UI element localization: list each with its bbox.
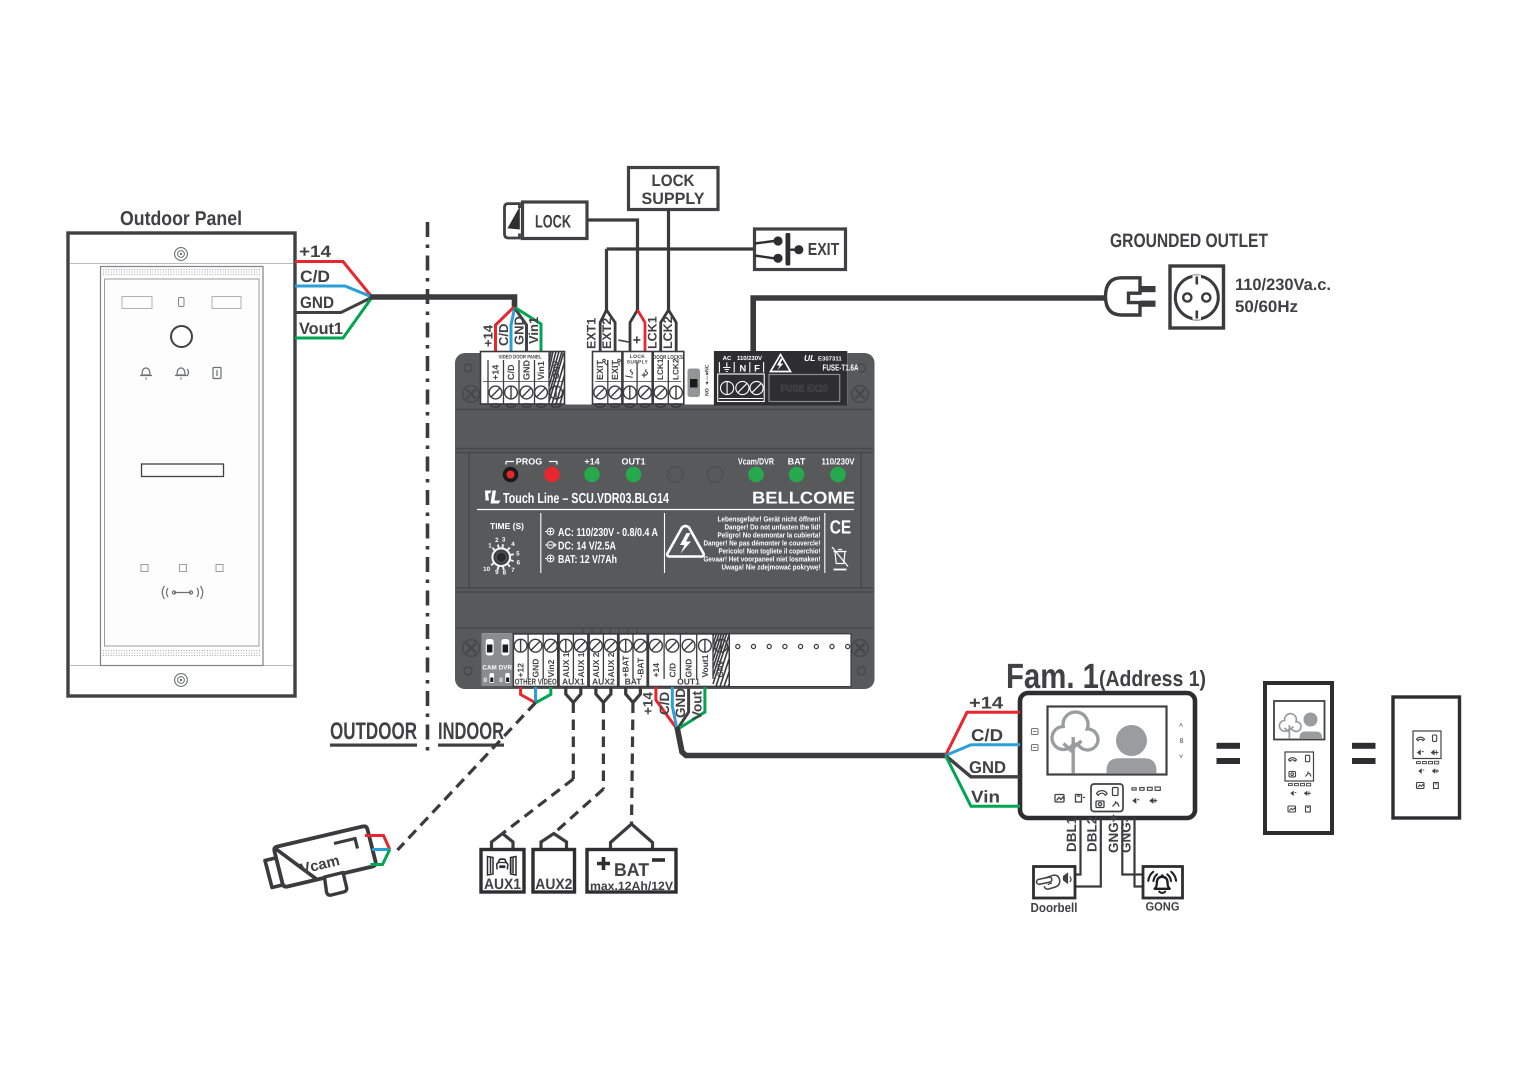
svg-text:+BAT: +BAT: [621, 655, 631, 678]
svg-text:EXIT: EXIT: [610, 359, 620, 380]
svg-text:8: 8: [1180, 738, 1184, 745]
svg-text:PROG: PROG: [516, 457, 543, 467]
svg-text:OUT1: OUT1: [621, 457, 645, 467]
svg-text:Fam. 1: Fam. 1: [1006, 657, 1099, 696]
svg-text:1: 1: [488, 542, 492, 549]
svg-text:BAT: BAT: [788, 457, 806, 467]
svg-text:DVR: DVR: [499, 665, 513, 672]
svg-text:OUT1: OUT1: [677, 677, 700, 687]
svg-text:C/D: C/D: [971, 726, 1003, 745]
svg-text:AC: 110/230V - 0.8/0.4 A: AC: 110/230V - 0.8/0.4 A: [558, 527, 658, 539]
svg-text:/: /: [625, 375, 636, 378]
svg-text:AUX2: AUX2: [535, 876, 572, 893]
svg-text:C/D: C/D: [667, 663, 677, 678]
svg-text:F: F: [754, 364, 760, 375]
svg-text:FUSE 5X20: FUSE 5X20: [781, 384, 828, 395]
svg-text:BELLCOME: BELLCOME: [752, 489, 855, 508]
svg-text:N: N: [739, 364, 746, 375]
svg-text:DBL1: DBL1: [1064, 816, 1079, 852]
svg-text:Vin1: Vin1: [536, 361, 546, 380]
svg-text:9: 9: [495, 569, 499, 576]
svg-text:C/D: C/D: [496, 324, 511, 346]
svg-text:GND: GND: [531, 659, 541, 678]
svg-text:LOCK: LOCK: [630, 354, 645, 360]
svg-text:BAT: 12 V/7Ah: BAT: 12 V/7Ah: [558, 554, 617, 566]
svg-text:LOCK: LOCK: [652, 172, 695, 190]
svg-text:Vin: Vin: [971, 788, 1000, 807]
svg-text:AUX1: AUX1: [484, 876, 521, 893]
svg-text:5: 5: [516, 550, 520, 557]
svg-text:3: 3: [502, 536, 506, 543]
svg-text:C/D: C/D: [657, 692, 672, 716]
svg-text:-BAT: -BAT: [635, 657, 645, 677]
svg-text:DBL2: DBL2: [1084, 817, 1099, 852]
svg-text:+14: +14: [651, 663, 661, 678]
svg-text:LCK1: LCK1: [646, 316, 660, 349]
svg-text:C/D: C/D: [506, 364, 516, 380]
svg-text:GND: GND: [512, 316, 527, 345]
svg-text:DC: 14 V/2.5A: DC: 14 V/2.5A: [558, 541, 616, 553]
svg-text:EXT2: EXT2: [600, 318, 614, 349]
svg-text:OUTDOOR: OUTDOOR: [330, 718, 417, 745]
svg-text:+12: +12: [516, 663, 526, 678]
svg-text:˄: ˄: [1179, 723, 1183, 730]
svg-text:Vin2: Vin2: [546, 659, 556, 677]
svg-text:8: 8: [503, 570, 507, 577]
svg-text:SUPPLY: SUPPLY: [627, 360, 649, 366]
svg-text:UL: UL: [804, 353, 815, 363]
svg-text:+: +: [629, 336, 645, 344]
svg-text:7: 7: [511, 567, 515, 574]
svg-text:+14: +14: [490, 365, 500, 380]
svg-text:Vcam/DVR: Vcam/DVR: [738, 457, 774, 467]
svg-text:AUX 2: AUX 2: [606, 652, 616, 677]
svg-text:10: 10: [483, 566, 490, 573]
svg-text:Uwaga! Nie zdejmować pokrywę!: Uwaga! Nie zdejmować pokrywę!: [722, 563, 821, 572]
svg-text:OTHER VIDEO: OTHER VIDEO: [515, 677, 557, 687]
svg-text:GNG-: GNG-: [1118, 818, 1133, 853]
svg-text:Outdoor Panel: Outdoor Panel: [120, 208, 242, 230]
svg-text:GND: GND: [684, 659, 694, 678]
svg-text:Vout1: Vout1: [700, 654, 710, 677]
svg-text:Vout: Vout: [689, 691, 704, 720]
svg-text:BAT: BAT: [614, 859, 650, 880]
svg-text:INDOOR: INDOOR: [438, 718, 504, 745]
svg-text:max.12Ah/12V: max.12Ah/12V: [590, 879, 673, 893]
svg-text:GNV: GNV: [551, 360, 561, 379]
svg-text:0: 0: [499, 677, 503, 684]
svg-text:GND: GND: [673, 688, 688, 718]
svg-text:+14: +14: [584, 457, 599, 467]
svg-text:LCK2: LCK2: [661, 316, 675, 349]
svg-text:110/230V: 110/230V: [822, 457, 855, 467]
svg-text:2: 2: [495, 537, 499, 544]
svg-text:NO: NO: [705, 388, 711, 396]
svg-text:E307311: E307311: [818, 356, 842, 363]
svg-text:50/60Hz: 50/60Hz: [1235, 298, 1298, 316]
svg-text:NC: NC: [705, 364, 711, 372]
svg-text:4: 4: [511, 541, 515, 548]
svg-text:SUPPLY: SUPPLY: [642, 190, 705, 208]
svg-text:Vout1: Vout1: [299, 320, 343, 338]
svg-text:GNV: GNV: [716, 660, 725, 678]
svg-text:AUX 2: AUX 2: [591, 652, 601, 677]
svg-text:GND: GND: [969, 758, 1006, 777]
svg-text:6: 6: [517, 560, 521, 567]
svg-text:BAT: BAT: [625, 677, 643, 687]
svg-text:AUX2: AUX2: [592, 677, 615, 687]
svg-text:EXT1: EXT1: [585, 318, 599, 349]
svg-text:˅: ˅: [1179, 754, 1183, 761]
svg-text:TIME (S): TIME (S): [490, 521, 524, 531]
svg-text:Touch Line – SCU.VDR03.BLG14: Touch Line – SCU.VDR03.BLG14: [503, 491, 669, 507]
svg-text:+14: +14: [299, 243, 332, 261]
svg-text:AUX 1: AUX 1: [561, 652, 571, 677]
svg-text:+: +: [640, 372, 651, 378]
svg-text:(Address 1): (Address 1): [1099, 666, 1206, 691]
svg-text:LOCK: LOCK: [535, 212, 571, 232]
svg-text:LCK2: LCK2: [672, 358, 681, 380]
svg-text:CE: CE: [830, 518, 852, 539]
svg-text:+14: +14: [969, 694, 1004, 713]
svg-text:LCK1: LCK1: [656, 358, 665, 380]
svg-text:GND: GND: [300, 294, 334, 312]
svg-text:EXIT: EXIT: [808, 239, 840, 259]
svg-text:C/D: C/D: [300, 268, 330, 286]
svg-text:AUX 1: AUX 1: [576, 652, 586, 677]
svg-text:EXIT: EXIT: [595, 359, 605, 380]
svg-text:AC: AC: [723, 355, 732, 362]
svg-text:GND: GND: [521, 360, 531, 381]
svg-text:GROUNDED OUTLET: GROUNDED OUTLET: [1110, 230, 1268, 252]
svg-text:+14: +14: [640, 692, 655, 715]
svg-text:110/230V: 110/230V: [737, 355, 762, 362]
svg-text:VIDEO DOOR PANEL: VIDEO DOOR PANEL: [499, 355, 543, 361]
svg-text:110/230Va.c.: 110/230Va.c.: [1235, 276, 1331, 294]
svg-text:Doorbell: Doorbell: [1031, 900, 1078, 915]
svg-text:+14: +14: [481, 324, 496, 347]
svg-text:FUSE-T1.6A: FUSE-T1.6A: [823, 363, 859, 373]
svg-text:GONG: GONG: [1146, 900, 1180, 914]
svg-text:CAM: CAM: [482, 665, 496, 672]
svg-text:Vin1: Vin1: [526, 317, 541, 344]
svg-text:AUX1: AUX1: [562, 677, 585, 687]
svg-text:0: 0: [484, 677, 488, 684]
